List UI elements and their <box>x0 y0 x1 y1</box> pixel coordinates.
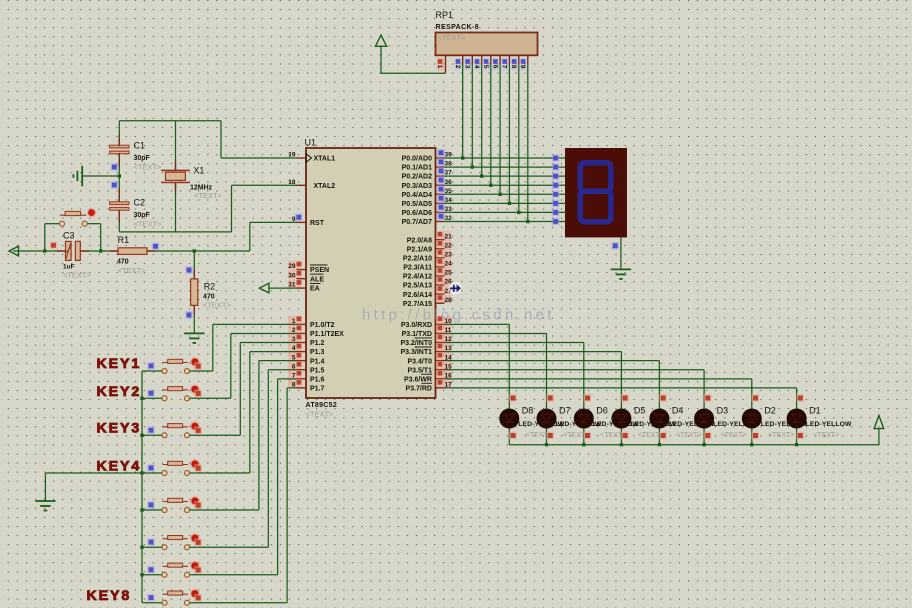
svg-text:3: 3 <box>464 65 471 69</box>
svg-text:P2.4/A12: P2.4/A12 <box>403 274 432 281</box>
power <box>375 35 386 46</box>
wire <box>13 250 66 252</box>
wire <box>45 472 142 474</box>
wire <box>232 184 298 186</box>
svg-text:P2.1/A9: P2.1/A9 <box>407 246 432 253</box>
node <box>584 394 592 402</box>
wire <box>147 250 156 252</box>
node <box>620 443 623 446</box>
svg-text:KEY2: KEY2 <box>97 384 142 400</box>
clock marker XTAL1 <box>306 154 312 163</box>
svg-text:RST: RST <box>310 220 325 227</box>
svg-text:C1: C1 <box>134 141 146 151</box>
node <box>140 434 143 437</box>
pin 6 <box>288 361 303 370</box>
power <box>9 246 19 256</box>
svg-text:KEY1: KEY1 <box>97 356 142 372</box>
wire <box>258 361 260 510</box>
node <box>461 156 464 159</box>
node <box>552 172 560 180</box>
node <box>546 394 554 402</box>
pin 32 <box>436 220 445 222</box>
wire <box>490 64 492 185</box>
node <box>584 432 592 440</box>
node <box>194 390 202 398</box>
wire <box>57 250 66 252</box>
pin 35 <box>436 193 445 195</box>
7-segment display <box>565 148 627 237</box>
svg-text:P3.5/T1: P3.5/T1 <box>407 367 432 374</box>
pin 7 <box>508 55 510 64</box>
svg-text:6: 6 <box>491 65 498 69</box>
wire <box>231 185 233 232</box>
pin 33 <box>436 211 445 213</box>
pin 11 <box>436 325 452 334</box>
node <box>147 501 155 509</box>
svg-text:1uF: 1uF <box>63 264 75 271</box>
svg-text:PSEN: PSEN <box>310 267 329 274</box>
wire <box>462 64 464 158</box>
cursor <box>449 282 462 295</box>
pin 24 <box>436 258 452 267</box>
svg-text:KEY4: KEY4 <box>97 459 142 475</box>
pin 37 <box>436 175 445 177</box>
node <box>658 443 661 446</box>
wire <box>118 121 120 147</box>
mcu U1 AT89C52 <box>306 148 436 398</box>
wire <box>508 324 510 444</box>
node <box>795 443 798 446</box>
svg-text:9: 9 <box>519 65 526 69</box>
pin 10 <box>436 316 452 325</box>
wire <box>190 397 231 399</box>
wire <box>45 223 60 225</box>
node <box>704 432 712 440</box>
pin 14 <box>436 352 452 361</box>
pin 26 <box>436 276 452 285</box>
pin 6 <box>499 55 501 64</box>
pin 16 <box>436 370 452 379</box>
node <box>140 397 143 400</box>
led D7 <box>537 409 557 429</box>
resistor pack RP1 <box>436 33 538 56</box>
wire <box>118 135 120 146</box>
wire <box>499 64 501 194</box>
wire <box>190 472 250 474</box>
svg-text:29: 29 <box>288 263 296 270</box>
pin 2 <box>462 55 464 64</box>
wire <box>44 224 46 251</box>
pin 21 <box>436 231 452 240</box>
svg-text:P2.5/A13: P2.5/A13 <box>403 283 432 290</box>
svg-text:P0.4/AD4: P0.4/AD4 <box>402 192 432 199</box>
wire <box>175 183 177 192</box>
node <box>509 432 517 440</box>
node <box>546 432 554 440</box>
pin 29 <box>288 261 303 270</box>
node <box>611 242 619 250</box>
svg-text:470: 470 <box>203 294 215 301</box>
wire <box>190 546 269 548</box>
node <box>194 501 202 509</box>
wire <box>80 250 89 252</box>
ground <box>611 269 631 279</box>
wire <box>142 546 162 548</box>
svg-text:P0.6/AD6: P0.6/AD6 <box>402 210 432 217</box>
button KEY6 <box>162 533 200 549</box>
wire <box>142 370 162 372</box>
wire <box>703 370 705 445</box>
pin 1 <box>288 316 303 325</box>
wire <box>190 370 213 372</box>
node <box>140 546 143 549</box>
node <box>796 432 804 440</box>
svg-text:P2.0/A8: P2.0/A8 <box>407 237 432 244</box>
svg-text:XTAL2: XTAL2 <box>314 183 336 190</box>
svg-text:D3: D3 <box>717 406 729 416</box>
node <box>140 508 143 511</box>
svg-text:19: 19 <box>288 152 296 159</box>
led D6 <box>574 409 594 429</box>
wire <box>101 250 118 252</box>
pin 28 <box>436 294 452 303</box>
wire <box>259 360 297 362</box>
svg-text:8: 8 <box>510 65 517 69</box>
wire <box>268 369 296 371</box>
svg-text:28: 28 <box>445 297 453 304</box>
wire <box>212 324 214 371</box>
wire <box>445 351 622 353</box>
svg-text:7: 7 <box>501 65 508 69</box>
svg-text:XTAL1: XTAL1 <box>314 156 336 163</box>
svg-text:<TEXT>: <TEXT> <box>721 432 747 439</box>
wire <box>508 64 510 203</box>
wire <box>527 64 529 221</box>
wire <box>240 342 296 344</box>
node <box>194 464 202 472</box>
pin 31 <box>288 279 303 288</box>
button KEY2 <box>162 384 200 400</box>
capacitor C1 <box>110 145 129 154</box>
svg-text:24: 24 <box>445 261 453 268</box>
wire <box>518 64 520 212</box>
node <box>147 362 155 370</box>
wire <box>118 188 120 202</box>
node <box>194 566 202 574</box>
svg-text:<TEXT>: <TEXT> <box>118 266 147 275</box>
node <box>111 181 119 189</box>
ground <box>73 166 82 186</box>
wire <box>445 202 566 204</box>
wire <box>142 434 162 436</box>
wire <box>445 157 566 159</box>
svg-text:<TEXT>: <TEXT> <box>676 432 702 439</box>
svg-text:U1: U1 <box>305 138 317 148</box>
svg-text:30pF: 30pF <box>134 212 151 219</box>
ground <box>184 333 204 343</box>
resistor R2 <box>191 279 198 306</box>
wire <box>142 509 162 511</box>
node <box>194 362 202 370</box>
svg-text:30: 30 <box>288 272 296 279</box>
button KEY8 <box>162 589 200 605</box>
svg-text:P1.0/T2: P1.0/T2 <box>310 322 335 329</box>
pin 15 <box>436 361 452 370</box>
button KEY3 <box>162 421 200 437</box>
wire RST row <box>250 221 297 223</box>
wire <box>82 175 119 177</box>
wire <box>44 473 46 501</box>
node <box>99 249 102 252</box>
button KEY7 <box>162 561 200 577</box>
svg-text:P2.3/A11: P2.3/A11 <box>403 265 432 272</box>
resistor R1 <box>118 248 147 255</box>
node ground tap <box>118 174 121 177</box>
node <box>552 218 560 226</box>
svg-text:P0.7/AD7: P0.7/AD7 <box>402 219 432 226</box>
wire <box>110 250 119 252</box>
svg-text:ALE: ALE <box>310 276 324 283</box>
pin 9 <box>527 55 529 64</box>
pin 8 <box>518 55 520 64</box>
svg-text:<TEXT>: <TEXT> <box>438 33 467 42</box>
node <box>140 573 143 576</box>
wire <box>118 210 120 232</box>
svg-text:<TEXT>: <TEXT> <box>134 163 163 172</box>
node <box>50 242 58 250</box>
node <box>43 249 46 252</box>
svg-text:P3.4/T0: P3.4/T0 <box>407 358 432 365</box>
wire <box>220 121 222 158</box>
wire <box>190 602 288 604</box>
pin 5 <box>288 352 303 361</box>
svg-text:R2: R2 <box>204 282 216 292</box>
wire <box>250 351 297 353</box>
wire <box>231 332 297 334</box>
node <box>471 165 474 168</box>
led D5 <box>611 409 631 429</box>
button RESET <box>60 208 97 226</box>
svg-text:D7: D7 <box>559 406 571 416</box>
pin 27 <box>436 285 452 294</box>
pin 34 <box>436 202 445 204</box>
svg-text:RP1: RP1 <box>436 10 454 20</box>
wire <box>445 220 566 222</box>
svg-text:P1.3: P1.3 <box>310 349 325 356</box>
pin 39 <box>436 157 445 159</box>
button KEY1 <box>162 357 200 373</box>
pin 4 <box>288 343 303 352</box>
pin 3 <box>288 334 303 343</box>
wire <box>277 379 279 575</box>
node <box>659 394 667 402</box>
svg-text:<TEXT>: <TEXT> <box>768 432 794 439</box>
node <box>621 432 629 440</box>
wire <box>546 333 548 444</box>
node <box>194 539 202 547</box>
capacitor C3 <box>66 241 81 260</box>
node <box>194 427 202 435</box>
node <box>147 464 155 472</box>
pin 30 <box>288 270 303 279</box>
pin 25 <box>436 267 452 276</box>
svg-text:5: 5 <box>482 65 489 69</box>
button KEY4 <box>162 459 200 475</box>
wire <box>267 370 269 547</box>
wire <box>445 360 660 362</box>
wire <box>142 472 162 474</box>
pin 3 <box>471 55 473 64</box>
wire <box>193 305 195 333</box>
led D8 <box>499 409 519 429</box>
wire <box>175 162 177 171</box>
wire <box>445 166 566 168</box>
node <box>659 432 667 440</box>
crystal X1 <box>161 170 190 182</box>
node <box>489 184 492 187</box>
node <box>509 394 517 402</box>
pin 5 <box>490 55 492 64</box>
svg-text:21: 21 <box>445 233 453 240</box>
pin 7 <box>288 370 303 379</box>
wire <box>878 429 880 445</box>
node <box>498 193 501 196</box>
pin 38 <box>436 166 445 168</box>
node <box>752 432 760 440</box>
svg-text:P3.1/TXD: P3.1/TXD <box>402 331 432 338</box>
wire <box>190 574 278 576</box>
wire <box>278 378 297 380</box>
wire led bus <box>509 444 879 446</box>
node <box>194 594 202 602</box>
wire <box>269 287 297 289</box>
node <box>185 311 193 319</box>
node <box>526 220 529 223</box>
led D4 <box>649 409 669 429</box>
wire <box>87 223 100 225</box>
svg-text:1: 1 <box>436 65 443 69</box>
svg-text:P1.4: P1.4 <box>310 358 325 365</box>
capacitor C2 <box>110 202 129 210</box>
svg-text:P1.1/T2EX: P1.1/T2EX <box>310 331 344 338</box>
wire <box>445 332 547 334</box>
svg-text:<TEXT>: <TEXT> <box>306 410 335 419</box>
wire <box>445 378 752 380</box>
svg-text:<TEXT>: <TEXT> <box>194 191 223 200</box>
led D1 <box>787 409 807 429</box>
wire <box>142 397 162 399</box>
svg-text:25: 25 <box>445 270 453 277</box>
svg-text:P0.3/AD3: P0.3/AD3 <box>402 183 432 190</box>
wire <box>286 388 288 603</box>
svg-text:D4: D4 <box>672 406 684 416</box>
svg-text:P0.0/AD0: P0.0/AD0 <box>402 156 432 163</box>
node <box>517 211 520 214</box>
power <box>874 415 884 428</box>
wire <box>658 361 660 445</box>
svg-text:AT89C52: AT89C52 <box>306 402 338 409</box>
node <box>147 538 155 546</box>
wire <box>175 121 177 171</box>
wire <box>445 342 584 344</box>
wire <box>221 157 297 159</box>
svg-text:LED-YELLOW: LED-YELLOW <box>806 421 852 428</box>
wire <box>620 352 622 445</box>
svg-text:22: 22 <box>445 242 453 249</box>
svg-text:P2.6/A14: P2.6/A14 <box>403 292 432 299</box>
pin 19 <box>297 157 307 159</box>
wire <box>118 210 120 222</box>
node <box>552 163 560 171</box>
svg-text:<TEXT>: <TEXT> <box>813 432 839 439</box>
wire key bus <box>141 371 143 603</box>
led D2 <box>742 409 762 429</box>
svg-text:18: 18 <box>288 179 296 186</box>
wire <box>445 323 510 325</box>
svg-text:KEY8: KEY8 <box>87 588 132 604</box>
svg-text:30pF: 30pF <box>134 155 151 162</box>
node <box>185 266 193 274</box>
wire <box>230 333 232 398</box>
node <box>582 443 585 446</box>
svg-text:D5: D5 <box>634 406 646 416</box>
power <box>259 283 269 293</box>
wire <box>249 222 251 251</box>
wire <box>445 184 566 186</box>
wire <box>287 387 296 389</box>
node <box>193 249 196 252</box>
wire <box>445 369 705 371</box>
svg-text:C3: C3 <box>63 231 75 241</box>
wire <box>583 343 585 445</box>
node <box>545 443 548 446</box>
pin 1 <box>445 55 447 73</box>
svg-text:D1: D1 <box>809 406 821 416</box>
pin 12 <box>436 334 452 343</box>
node <box>704 394 712 402</box>
wire <box>481 64 483 176</box>
svg-text:P1.2: P1.2 <box>310 340 325 347</box>
node <box>552 209 560 217</box>
node <box>552 181 560 189</box>
svg-text:4: 4 <box>473 65 480 69</box>
node <box>147 426 155 434</box>
wire <box>381 46 446 73</box>
wire <box>142 574 162 576</box>
svg-text:P3.3/INT1: P3.3/INT1 <box>400 349 432 356</box>
pin 2 <box>288 325 303 334</box>
wire <box>445 193 566 195</box>
wire <box>147 250 250 252</box>
wire <box>620 237 622 269</box>
svg-text:X1: X1 <box>193 166 204 176</box>
node <box>750 443 753 446</box>
svg-text:<TEXT>: <TEXT> <box>134 220 163 229</box>
svg-text:D2: D2 <box>764 406 776 416</box>
pin 22 <box>436 240 452 249</box>
wire <box>193 270 195 279</box>
ground <box>35 501 55 511</box>
wire <box>193 305 195 314</box>
wire <box>142 602 162 604</box>
node <box>508 202 511 205</box>
wire <box>190 509 259 511</box>
wire <box>751 379 753 445</box>
led D3 <box>694 409 714 429</box>
node <box>111 163 119 171</box>
svg-text:<TEXT>: <TEXT> <box>203 301 232 310</box>
svg-text:C2: C2 <box>134 198 146 208</box>
